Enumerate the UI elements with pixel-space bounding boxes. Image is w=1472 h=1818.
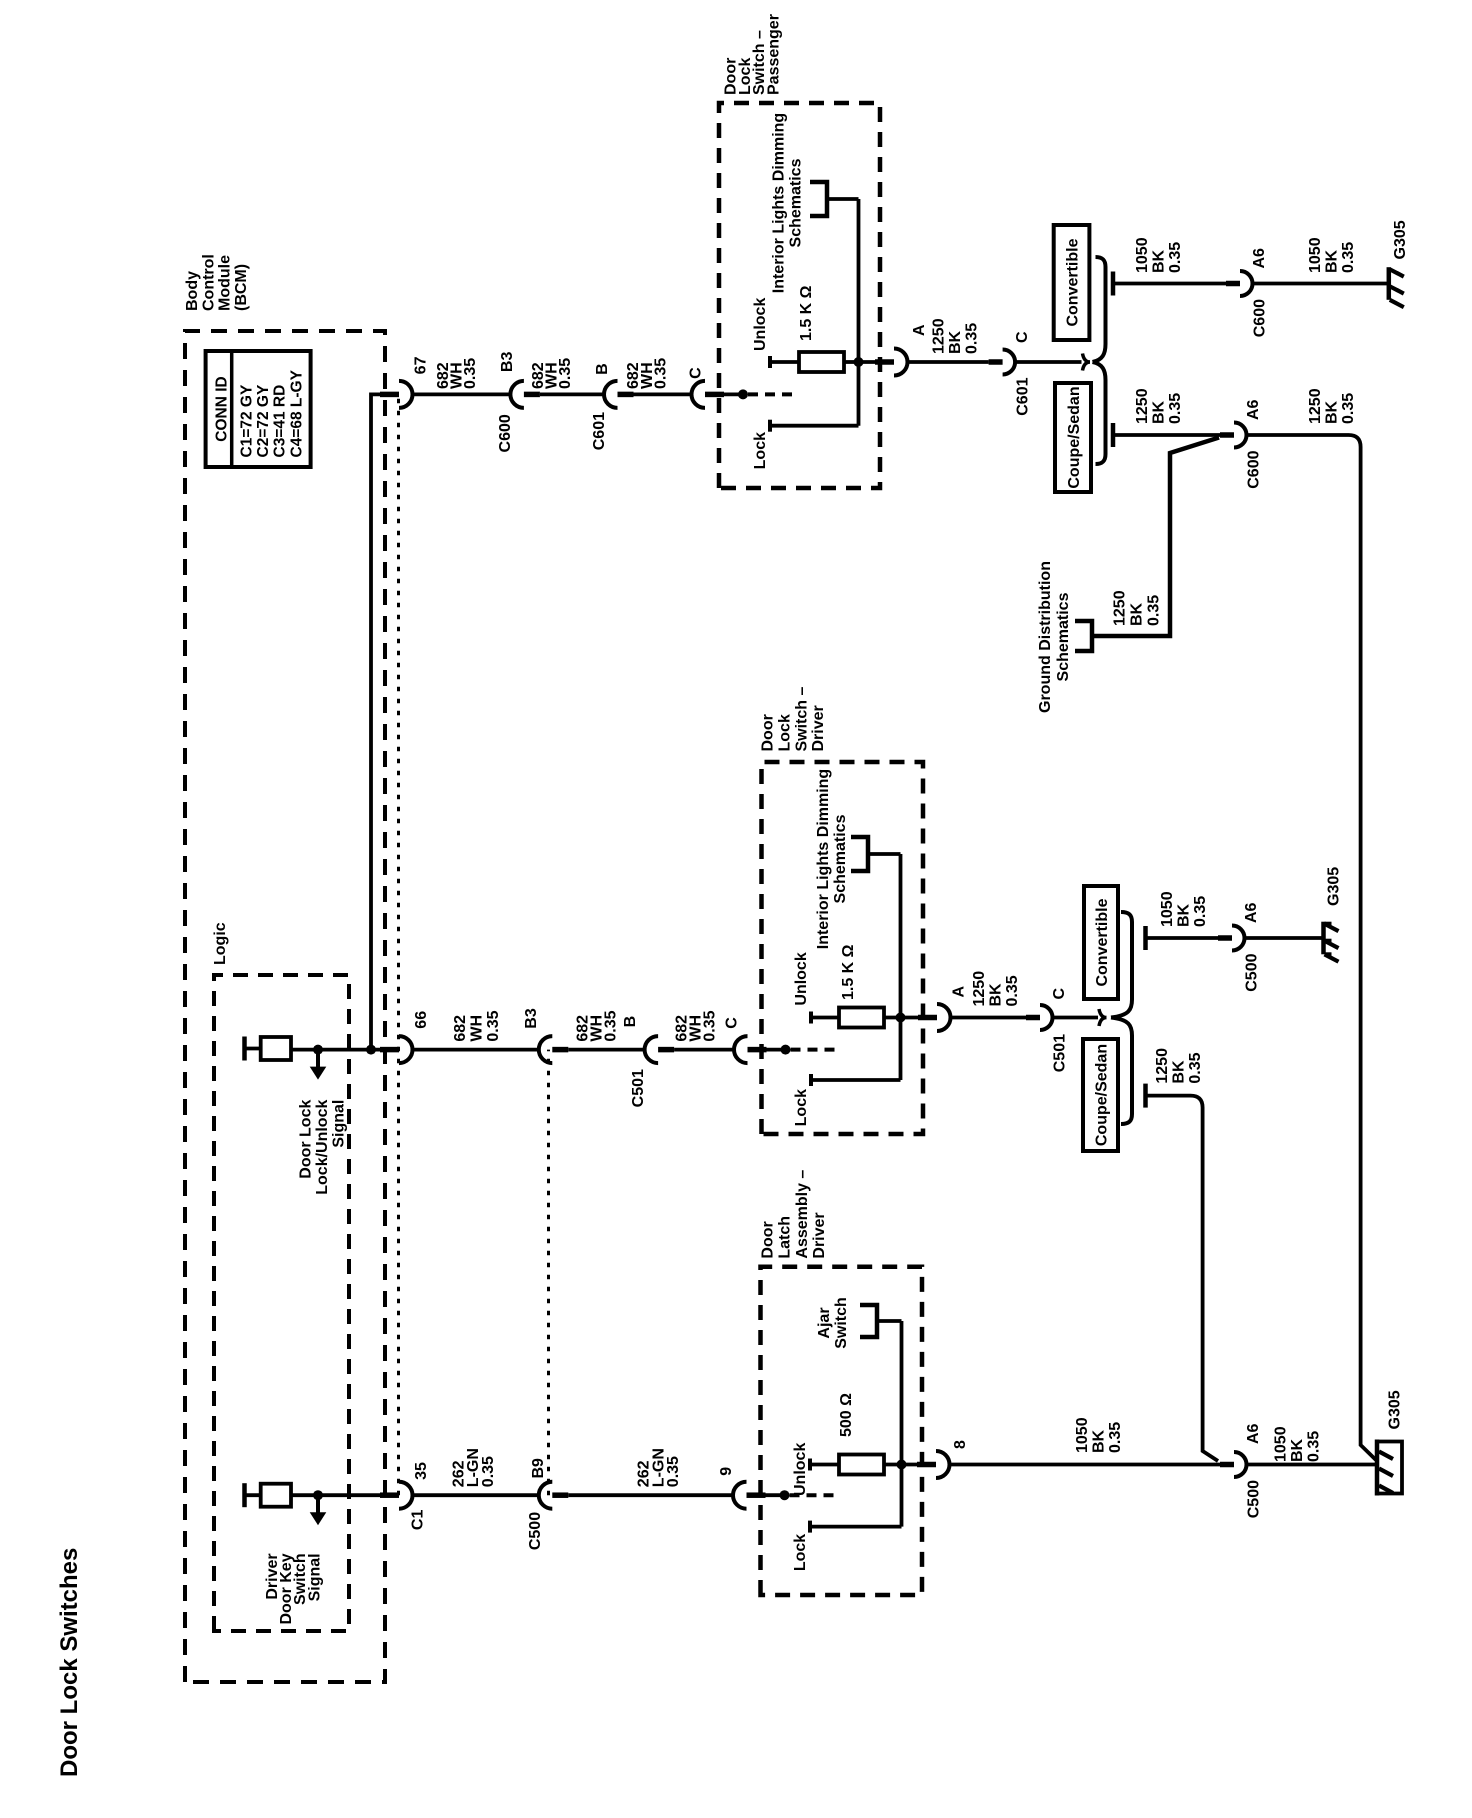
svg-text:C500: C500: [1244, 953, 1261, 991]
svg-text:Control: Control: [200, 254, 217, 311]
svg-text:Switch –: Switch –: [793, 686, 810, 751]
svg-text:Lock/Unlock: Lock/Unlock: [314, 1100, 331, 1195]
svg-text:67: 67: [413, 356, 430, 374]
svg-text:0.35: 0.35: [1167, 393, 1184, 424]
svg-text:C500: C500: [1246, 1480, 1263, 1518]
svg-text:0.35: 0.35: [665, 1456, 682, 1487]
svg-text:Interior Lights Dimming: Interior Lights Dimming: [771, 113, 788, 293]
svg-text:WH: WH: [468, 1015, 485, 1042]
svg-text:Signal: Signal: [331, 1100, 348, 1148]
svg-text:0.35: 0.35: [1192, 896, 1209, 927]
svg-text:Driver: Driver: [810, 705, 827, 751]
svg-text:Unlock: Unlock: [752, 298, 769, 351]
svg-text:0.35: 0.35: [557, 358, 574, 389]
svg-text:1050: 1050: [1307, 237, 1324, 273]
svg-text:Lock: Lock: [793, 1089, 810, 1126]
svg-text:G305: G305: [1326, 867, 1343, 906]
svg-text:Logic: Logic: [212, 922, 229, 965]
svg-text:1250: 1250: [1134, 388, 1151, 424]
svg-text:Coupe/Sedan: Coupe/Sedan: [1094, 1044, 1111, 1146]
svg-text:0.35: 0.35: [964, 323, 981, 354]
svg-text:B: B: [622, 1016, 639, 1028]
svg-text:Driver: Driver: [811, 1212, 828, 1258]
svg-text:A6: A6: [1245, 1423, 1262, 1444]
svg-text:C601: C601: [1015, 377, 1032, 415]
svg-text:Lock: Lock: [752, 432, 769, 469]
svg-text:Unlock: Unlock: [793, 952, 810, 1005]
svg-text:1250: 1250: [1307, 388, 1324, 424]
svg-text:0.35: 0.35: [603, 1010, 620, 1041]
svg-text:8: 8: [952, 1440, 969, 1449]
svg-text:Signal: Signal: [306, 1553, 323, 1601]
svg-text:C: C: [688, 367, 705, 379]
svg-text:C501: C501: [630, 1069, 647, 1107]
svg-text:Assembly –: Assembly –: [794, 1170, 811, 1259]
svg-text:B: B: [594, 363, 611, 375]
svg-text:Ground Distribution: Ground Distribution: [1037, 561, 1054, 713]
svg-text:A6: A6: [1251, 248, 1268, 269]
svg-text:C600: C600: [497, 414, 514, 452]
svg-text:500 Ω: 500 Ω: [838, 1393, 855, 1437]
svg-text:C601: C601: [591, 412, 608, 450]
svg-text:C3=41 RD: C3=41 RD: [272, 385, 289, 458]
svg-text:Door Lock Switches: Door Lock Switches: [56, 1548, 83, 1777]
svg-text:BK: BK: [1151, 249, 1168, 273]
svg-text:A6: A6: [1243, 902, 1260, 923]
svg-text:Ajar: Ajar: [816, 1307, 833, 1338]
svg-text:Coupe/Sedan: Coupe/Sedan: [1066, 386, 1083, 488]
svg-text:G305: G305: [1387, 1390, 1404, 1429]
svg-text:682: 682: [452, 1015, 469, 1042]
svg-text:0.35: 0.35: [652, 358, 669, 389]
svg-text:0.35: 0.35: [1167, 242, 1184, 273]
svg-text:1250: 1250: [1154, 1048, 1171, 1084]
svg-text:B3: B3: [523, 1008, 540, 1029]
svg-text:Schematics: Schematics: [1055, 592, 1072, 681]
svg-text:C501: C501: [1052, 1034, 1069, 1072]
svg-text:0.35: 0.35: [485, 1010, 502, 1041]
svg-text:0.35: 0.35: [1107, 1422, 1124, 1453]
svg-text:C1=72 GY: C1=72 GY: [239, 384, 256, 457]
svg-text:BK: BK: [1324, 400, 1341, 424]
svg-text:1.5 K Ω: 1.5 K Ω: [798, 285, 815, 341]
svg-text:C2=72 GY: C2=72 GY: [255, 384, 272, 457]
svg-text:BK: BK: [1171, 1060, 1188, 1084]
svg-text:0.35: 0.35: [462, 358, 479, 389]
svg-text:B9: B9: [530, 1458, 547, 1479]
svg-text:0.35: 0.35: [1146, 595, 1163, 626]
svg-text:(BCM): (BCM): [233, 264, 250, 311]
svg-text:G305: G305: [1392, 220, 1409, 259]
svg-text:B3: B3: [499, 352, 516, 373]
svg-text:0.35: 0.35: [480, 1456, 497, 1487]
svg-text:BK: BK: [1091, 1429, 1108, 1453]
svg-text:Lock: Lock: [777, 714, 794, 751]
svg-text:BK: BK: [1151, 400, 1168, 424]
svg-text:1.5 K Ω: 1.5 K Ω: [840, 944, 857, 1000]
svg-text:Body: Body: [184, 271, 201, 311]
svg-text:C600: C600: [1246, 450, 1263, 488]
svg-text:CONN ID: CONN ID: [214, 376, 231, 441]
svg-text:Passenger: Passenger: [766, 14, 783, 95]
svg-text:0.35: 0.35: [1340, 393, 1357, 424]
svg-text:BK: BK: [988, 983, 1005, 1007]
svg-text:Lock: Lock: [792, 1534, 809, 1571]
svg-text:35: 35: [413, 1462, 430, 1480]
svg-text:Door: Door: [760, 714, 777, 751]
svg-text:Module: Module: [217, 255, 234, 311]
svg-text:1050: 1050: [1273, 1426, 1290, 1462]
svg-text:C1: C1: [409, 1509, 426, 1530]
svg-text:BK: BK: [1324, 249, 1341, 273]
svg-text:Door: Door: [759, 1221, 776, 1258]
svg-text:Interior Lights Dimming: Interior Lights Dimming: [815, 769, 832, 949]
svg-text:Convertible: Convertible: [1065, 238, 1082, 326]
svg-text:9: 9: [718, 1467, 735, 1476]
svg-text:C: C: [1051, 988, 1068, 1000]
svg-text:Unlock: Unlock: [792, 1443, 809, 1496]
svg-text:C: C: [1014, 331, 1031, 343]
svg-text:1250: 1250: [931, 318, 948, 354]
svg-text:A: A: [911, 324, 928, 336]
svg-text:0.35: 0.35: [1004, 975, 1021, 1006]
svg-text:1250: 1250: [971, 971, 988, 1007]
svg-text:Schematics: Schematics: [832, 814, 849, 903]
svg-text:A6: A6: [1245, 399, 1262, 420]
svg-text:0.35: 0.35: [1340, 242, 1357, 273]
svg-text:Schematics: Schematics: [787, 158, 804, 247]
svg-text:C600: C600: [1252, 299, 1269, 337]
svg-text:0.35: 0.35: [701, 1010, 718, 1041]
svg-text:Switch: Switch: [833, 1297, 850, 1349]
svg-text:C4=68 L-GY: C4=68 L-GY: [288, 369, 305, 457]
svg-text:0.35: 0.35: [1306, 1431, 1323, 1462]
svg-text:1050: 1050: [1134, 237, 1151, 273]
svg-text:1250: 1250: [1112, 590, 1129, 626]
svg-text:BK: BK: [1129, 602, 1146, 626]
svg-text:1050: 1050: [1074, 1417, 1091, 1453]
svg-text:Convertible: Convertible: [1094, 898, 1111, 986]
svg-text:C: C: [724, 1017, 741, 1029]
svg-text:C500: C500: [527, 1512, 544, 1550]
svg-text:A: A: [951, 986, 968, 998]
svg-text:66: 66: [413, 1011, 430, 1029]
svg-text:BK: BK: [947, 330, 964, 354]
svg-text:BK: BK: [1176, 903, 1193, 927]
svg-text:BK: BK: [1289, 1438, 1306, 1462]
svg-text:0.35: 0.35: [1187, 1052, 1204, 1083]
svg-text:Latch: Latch: [777, 1216, 794, 1259]
svg-text:1050: 1050: [1159, 891, 1176, 927]
svg-text:Door Lock: Door Lock: [298, 1100, 315, 1179]
